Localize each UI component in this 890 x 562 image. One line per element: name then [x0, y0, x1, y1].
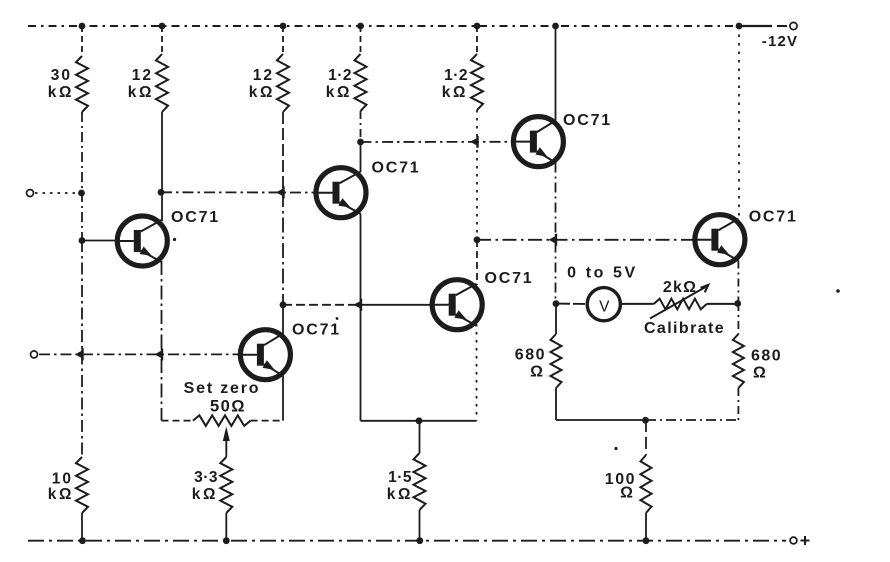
- wire: top rail down into Q5 collector: [555, 26, 557, 121]
- wire: 1.2k#2 down to Q4 collector node: [476, 110, 478, 240]
- speck: [614, 447, 617, 450]
- wire: 12k#2 top lead: [282, 26, 284, 54]
- wire: 3.3k bottom lead: [225, 513, 227, 541]
- svg-text:OC71: OC71: [372, 160, 421, 177]
- wire: -12V top supply rail: [28, 25, 739, 27]
- terminal input upper o: [27, 190, 34, 197]
- svg-text:10: 10: [52, 471, 73, 488]
- wire: 12k#2 down to Q3 base crossing: [282, 112, 284, 192]
- resistor R3 12kΩ: [277, 54, 289, 112]
- wire: 1.2k#1 to Q3 collector node: [360, 111, 362, 142]
- node input o / divider: [78, 190, 85, 197]
- speck: [336, 317, 339, 320]
- wire: crossing to Q4 base: [361, 304, 432, 306]
- node top rail / 1.2k#1: [357, 23, 364, 30]
- crossing hop x283/y192: [276, 188, 284, 196]
- wire: wiper to 3.3k: [225, 452, 227, 457]
- svg-text:1·2: 1·2: [444, 67, 468, 84]
- wire: 100Ω bottom lead: [645, 513, 647, 541]
- node top rail / 1.2k#2: [474, 23, 481, 30]
- transistor Q1 OC71: [115, 216, 168, 266]
- svg-text:kΩ: kΩ: [442, 84, 468, 101]
- speck: [173, 238, 176, 241]
- wire: 1.2k#2 top lead: [476, 26, 478, 54]
- crossing hop x161/y354: [155, 350, 163, 358]
- wire: Q4 collector node into Q4: [476, 240, 478, 285]
- node Q2 collector: [280, 301, 287, 308]
- resistor R4 1.2kΩ: [355, 54, 367, 111]
- wire: Q2 emitter down to pot right lead: [282, 376, 284, 421]
- node top rail / 12k#1: [159, 23, 166, 30]
- wire: 10k bottom lead: [81, 513, 83, 541]
- wire: Q3 collector node to Q5 base: [361, 141, 513, 143]
- resistor R6 10kΩ: [76, 457, 88, 513]
- rheostat 2kΩ calibrate: [654, 299, 707, 310]
- resistor R5 1.2kΩ: [471, 54, 483, 110]
- svg-text:OC71: OC71: [563, 112, 612, 129]
- wire: 680 right bottom lead: [737, 388, 739, 420]
- svg-text:OC71: OC71: [485, 270, 534, 287]
- wire: top rail to -12V terminal: [739, 25, 772, 27]
- wire: 1.2k#1 top lead: [360, 26, 362, 54]
- wire: Q1 emitter down to set-zero pot: [161, 261, 163, 421]
- wire: lower o to Q2 base: [39, 353, 239, 355]
- wire: crossing down to Q2 collector node: [282, 192, 284, 305]
- node bottom rail / 10k: [79, 537, 86, 544]
- svg-text:12: 12: [253, 67, 274, 84]
- resistor R2 12kΩ: [156, 54, 168, 112]
- svg-text:680: 680: [751, 348, 782, 365]
- wire: Q4 tail corner to 1.5k node: [419, 420, 477, 422]
- svg-text:1·2: 1·2: [328, 67, 352, 84]
- svg-text:50Ω: 50Ω: [210, 398, 246, 416]
- wire: Q2 collector node to crossing: [283, 304, 361, 306]
- svg-text:OC71: OC71: [171, 209, 220, 226]
- node Q3 collector: [357, 139, 364, 146]
- wire: Q1 base node to Q1: [82, 240, 116, 242]
- node Q4 collector: [474, 236, 481, 243]
- resistor R9 680Ω left: [551, 334, 562, 388]
- svg-text:-12V: -12V: [762, 33, 799, 50]
- svg-text:Ω: Ω: [753, 365, 768, 382]
- wire: tail corner to 1.5k node: [361, 420, 420, 422]
- resistor R10 680Ω right: [733, 334, 744, 388]
- wire: -12V node down to Q7 collector: [738, 26, 740, 219]
- transistor Q2 OC71 set-zero: [238, 330, 291, 380]
- svg-text:kΩ: kΩ: [128, 84, 154, 101]
- svg-text:0 to 5V: 0 to 5V: [567, 265, 638, 282]
- transistor Q5 OC71: [511, 117, 564, 167]
- wire: bridge bottom right (dashed): [646, 419, 738, 421]
- wire: Q3 emitter down to 1.5k tail corner: [360, 214, 362, 421]
- terminal o+ bottom right: [790, 537, 797, 544]
- wire: 680 right top lead: [737, 303, 739, 334]
- svg-text:Ω: Ω: [530, 364, 545, 381]
- svg-text:Calibrate: Calibrate: [644, 320, 725, 337]
- wire: voltmeter to rheostat: [621, 303, 654, 305]
- svg-text:kΩ: kΩ: [326, 84, 352, 101]
- resistor R8 1.5kΩ: [414, 453, 426, 510]
- wire: 12k#1 to Q1 collector node: [161, 112, 163, 221]
- wire: 1.5k top lead: [419, 421, 421, 453]
- resistor R1 30kΩ: [76, 56, 88, 112]
- node 1.5k tail: [416, 417, 423, 424]
- wire: 680L node to voltmeter: [556, 303, 585, 305]
- resistor R7 3.3kΩ: [220, 457, 232, 513]
- crossing hop x82/y354: [75, 350, 83, 358]
- wire: pot right lead: [251, 420, 283, 422]
- wire: Q5 emitter down across Q7 base to 680 node: [555, 163, 557, 304]
- wire: 1.5k bottom lead: [419, 510, 421, 541]
- svg-text:Set zero: Set zero: [184, 380, 261, 397]
- crossing hop x360/y305: [354, 301, 362, 309]
- node top rail / 12k#2: [280, 23, 287, 30]
- potentiometer 50Ω set zero: [193, 415, 251, 426]
- rheostat diagonal arrow: [650, 287, 706, 319]
- wire: Q4 emitter down to tail corner: [476, 324, 478, 421]
- svg-text:30: 30: [51, 67, 72, 84]
- svg-text:V: V: [599, 298, 610, 315]
- wire: Q2 collector node down into Q2: [282, 305, 284, 334]
- wire: Q7 emitter down to bridge right node: [737, 261, 739, 304]
- wire: Q1 collector node to Q3 base: [161, 191, 315, 193]
- terminal -12V: [790, 22, 797, 29]
- svg-text:OC71: OC71: [292, 322, 341, 339]
- node Q1 base: [79, 237, 86, 244]
- node bottom rail / 3.3k: [223, 537, 230, 544]
- wire: bridge node down to 100Ω: [645, 420, 647, 455]
- wire: 30k bottom to Q1 base node: [81, 112, 83, 240]
- pot wiper arrow: [223, 427, 230, 442]
- transistor Q3 OC71: [314, 168, 367, 218]
- wire: 680 left bottom lead: [555, 304, 557, 334]
- node bridge right: [734, 300, 741, 307]
- svg-text:12: 12: [132, 67, 153, 84]
- wire: 12k#1 top lead: [161, 26, 163, 54]
- wire: upper o to node: [35, 192, 79, 194]
- crossing hop x477/y142: [470, 138, 478, 146]
- crossing hop x555/y240: [549, 236, 557, 244]
- wire: Q4 collector node to Q7 base: [477, 239, 693, 241]
- wire: Q1 base node down to bottom rail: [81, 240, 83, 457]
- svg-text:680: 680: [515, 347, 546, 364]
- wire: bottom + supply rail: [28, 540, 786, 542]
- node bridge left: [553, 300, 560, 307]
- wire: rheostat to right node: [707, 303, 738, 305]
- svg-text:kΩ: kΩ: [387, 486, 413, 503]
- svg-text:kΩ: kΩ: [48, 84, 74, 101]
- node top rail / Q5: [552, 23, 559, 30]
- transistor Q6 OC71 output: [692, 215, 745, 265]
- node bottom rail / 1.5k: [416, 537, 423, 544]
- svg-text:OC71: OC71: [749, 209, 798, 226]
- node bottom rail / 100: [643, 537, 650, 544]
- svg-text:2kΩ: 2kΩ: [663, 279, 697, 296]
- svg-text:Ω: Ω: [620, 485, 635, 502]
- svg-text:kΩ: kΩ: [249, 84, 275, 101]
- svg-text:1·5: 1·5: [388, 469, 412, 486]
- node Q1 collector: [158, 189, 165, 196]
- svg-text:kΩ: kΩ: [48, 486, 74, 503]
- svg-text:kΩ: kΩ: [192, 486, 218, 503]
- resistor R11 100Ω: [641, 455, 652, 513]
- svg-text:3·3: 3·3: [194, 469, 218, 486]
- speck: [836, 289, 840, 293]
- wire: bridge bottom left: [556, 419, 646, 421]
- terminal input lower o: [31, 351, 38, 358]
- transistor Q4 OC71: [430, 280, 483, 330]
- voltmeter V: [587, 288, 620, 321]
- wire: 30k top lead: [81, 26, 83, 56]
- node top rail / 30k: [79, 23, 86, 30]
- node bridge bottom: [642, 417, 649, 424]
- wire: Q3 collector node into Q3: [360, 142, 362, 172]
- node top rail / -12V feed: [736, 23, 743, 30]
- wire: pot left lead: [162, 420, 194, 422]
